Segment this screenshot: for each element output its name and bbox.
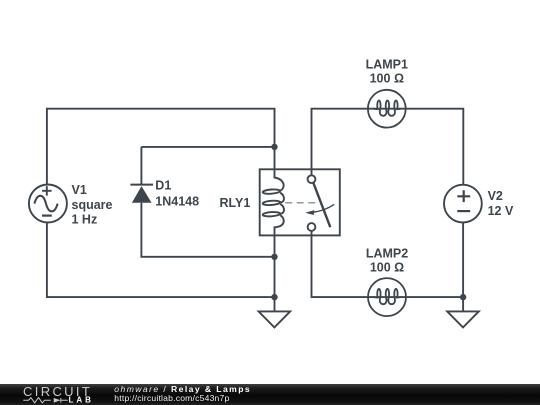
svg-text:12 V: 12 V	[488, 204, 514, 218]
svg-text:1N4148: 1N4148	[155, 194, 199, 208]
svg-text:http://circuitlab.com/c543n7p: http://circuitlab.com/c543n7p	[114, 393, 229, 403]
svg-text:LAMP1: LAMP1	[366, 58, 408, 72]
svg-text:LAMP2: LAMP2	[366, 247, 408, 261]
svg-text:D1: D1	[155, 179, 171, 193]
svg-text:V1: V1	[72, 183, 87, 197]
svg-text:LAB: LAB	[69, 396, 94, 405]
svg-text:V2: V2	[488, 189, 503, 203]
svg-text:square: square	[72, 198, 113, 212]
svg-text:1 Hz: 1 Hz	[72, 213, 98, 227]
svg-text:100 Ω: 100 Ω	[370, 72, 404, 86]
svg-text:100 Ω: 100 Ω	[370, 261, 404, 275]
svg-text:RLY1: RLY1	[219, 196, 250, 210]
